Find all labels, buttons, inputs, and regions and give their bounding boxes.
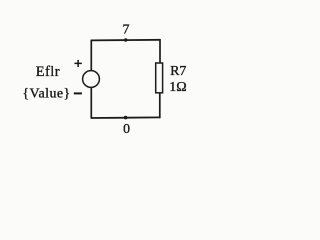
minus sign of source [74,92,82,94]
resistor R7 body [156,63,163,93]
wire bottom: node 0 rail [91,116,160,119]
junction dot on node 7 [124,38,127,41]
svg-text:{Value}: {Value} [22,87,70,102]
junction dot on node 0 [124,116,128,120]
svg-text:Eflr: Eflr [36,64,60,80]
svg-text:R7: R7 [170,64,186,79]
plus sign of source [75,60,82,67]
svg-text:0: 0 [123,121,130,136]
wire top: node 7 rail [91,39,160,42]
wire left upper (node 7 to source +) [90,40,92,71]
voltage source Eflr (circle) [83,71,100,88]
wire right lower (R7 pin 2 to node 0) [159,93,161,118]
wire left lower (source - to node 0) [90,87,92,118]
svg-text:1Ω: 1Ω [169,80,186,95]
svg-text:7: 7 [123,23,130,38]
wire right upper (node 7 to R7 pin 1) [159,39,161,63]
